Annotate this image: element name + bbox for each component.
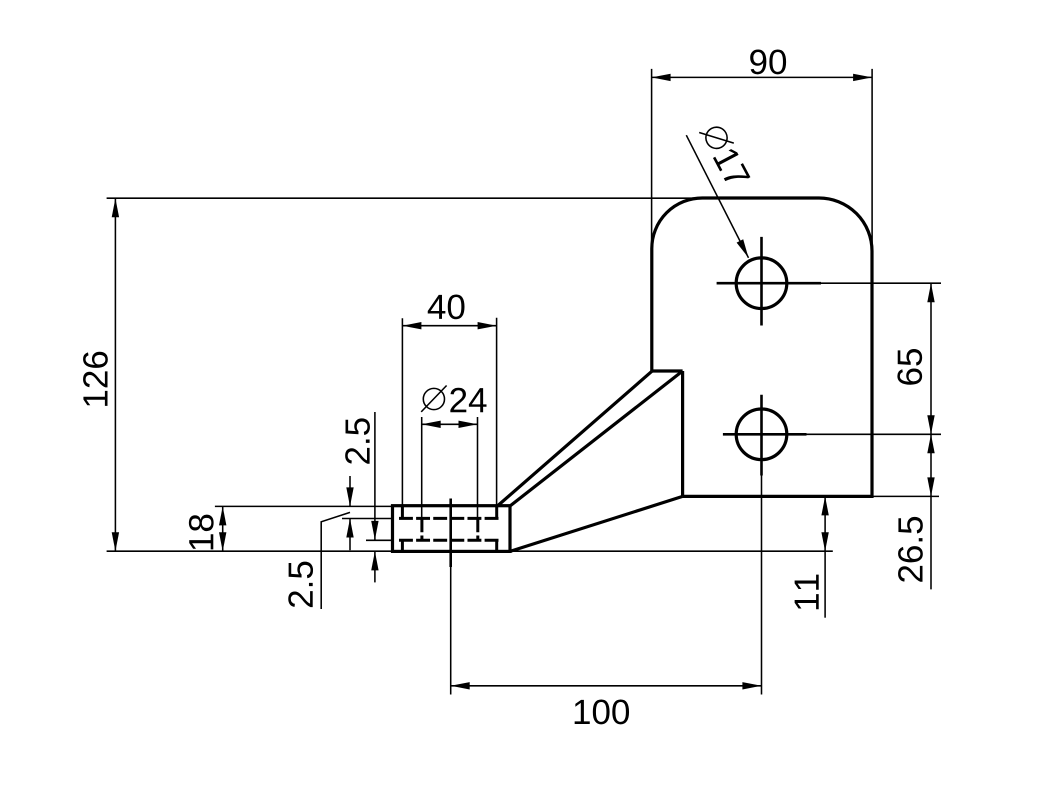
dim 2.5 bottom wall extension [366,539,393,541]
hidden counterbore right bottom [495,540,498,551]
dim 2.5 top wall extension [342,518,393,520]
web front vertical edge [681,371,684,496]
dim 2.5 bottom wall line below [374,551,376,582]
dim 65 arrow down [927,415,934,434]
dim 2.5 bottom wall text [345,418,370,463]
lower hole centerline horizontal [723,433,807,436]
boss rectangle [393,506,511,552]
dim 126 arrow up [112,198,119,217]
dim 2.5 top wall leader [321,512,350,609]
lower hole centerline thin extension right [807,433,942,435]
dim 40 arrow right [478,322,497,329]
dim 65 arrow up [927,283,934,302]
dim D24 arrow right [459,421,478,428]
dim 90 extension right [871,69,873,252]
dim 11 line [824,496,826,617]
dim 126 line [114,198,116,551]
leader D17 line [686,135,748,258]
dim 2.5 top wall line below [349,519,351,551]
upper hole centerline vertical [760,237,763,326]
dim 126 arrow down [112,532,119,551]
dim 100 line [451,685,762,687]
hidden counterbore right top [495,506,498,518]
dim 18 arrow up [219,506,226,525]
dim 11 text [795,575,819,610]
dim 18 text [189,515,214,550]
dim 90 arrow right [853,74,872,81]
dim 100 arrow left [451,682,470,689]
dim D24 arrow left [422,421,441,428]
boss axis centerline [449,499,452,568]
upper hole centerline thin extension right [821,282,941,284]
dim 2.5 top wall text [288,562,313,607]
dim 65 text [897,349,922,385]
dim D17 text [713,147,750,189]
dim 40 line [402,325,496,327]
dim 2.5 bottom wall arrow down [371,521,378,540]
dim 2.5 top wall arrow down [346,487,353,506]
lower hole centerline thin extension down [761,476,763,695]
hidden bore left edge [420,518,423,540]
hidden counterbore left bottom [401,540,404,551]
dim D24 diameter symbol [421,386,446,412]
dim 90 line [652,76,873,78]
dim 26.5 arrow down [927,477,934,496]
dim 2.5 bottom wall line above [374,412,376,540]
dim 40 text [428,294,465,319]
dim 26.5 text [898,517,923,582]
leader D17 arrow [737,239,749,258]
lower hole circle [736,409,787,460]
dim 18 line [222,506,224,551]
dim 90 arrow left [652,74,671,81]
hidden bore lower line [399,539,499,542]
dim D24 line [422,423,478,425]
dim 2.5 top wall line above [349,476,351,506]
hidden bore upper line [399,517,499,520]
web upper diagonal edge [497,371,651,506]
dim 40 extension right [496,318,498,506]
web lower diagonal edge [510,371,683,506]
dim 11 arrow down [821,532,828,551]
dim 65 and 26.5 line [930,283,932,589]
hidden bore right edge [476,518,479,540]
dim 2.5 top wall arrow up [346,519,353,538]
dim 126 text [83,352,108,406]
dim D24 text [450,388,486,412]
dim 126 extension top [107,197,705,199]
web bottom diagonal edge [510,496,683,551]
web top edge [652,369,683,372]
dim 100 arrow right [742,682,761,689]
dim 90 extension left [651,69,653,262]
boss axis centerline thin extension down [450,567,452,695]
dim 90 text [750,50,786,75]
dim D17 diameter symbol [699,120,734,155]
dim 18 arrow down [219,532,226,551]
dim 100 text [575,700,629,725]
dim 40 extension left [401,318,403,506]
upper hole circle [736,258,787,309]
dim 40 arrow left [402,322,421,329]
baseline extension bottom [107,550,833,552]
hidden counterbore left top [401,506,404,518]
plate bottom extension right [872,495,939,497]
dim 18 extension [215,505,393,507]
dim 2.5 bottom wall arrow up [371,551,378,570]
dim D24 extension right [477,417,479,518]
dim 26.5 arrow up [927,434,934,453]
dim D24 extension left [421,417,423,518]
plate outline with rounded top corners [652,198,872,496]
dim 11 arrow up [821,496,828,515]
upper hole centerline horizontal [717,282,821,285]
lower hole centerline vertical [760,395,763,476]
